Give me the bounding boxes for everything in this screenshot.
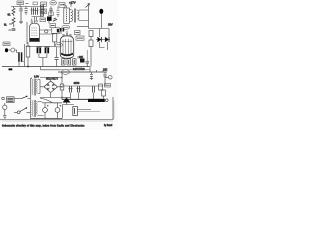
svg-text:40/40: 40/40 xyxy=(74,83,80,85)
svg-text:+27V: +27V xyxy=(69,0,76,4)
svg-text:by hand: by hand xyxy=(104,125,113,127)
svg-text:6.3V: 6.3V xyxy=(34,76,39,79)
svg-text:Schematic circuitry of this am: Schematic circuitry of this amp, taken f… xyxy=(2,124,85,127)
svg-text:25V: 25V xyxy=(108,23,113,27)
svg-text:22K: 22K xyxy=(103,68,108,71)
svg-text:SEL RECT: SEL RECT xyxy=(46,78,59,81)
svg-text:6.3V HTRS: 6.3V HTRS xyxy=(73,69,85,71)
svg-text:hi.: hi. xyxy=(4,23,7,27)
